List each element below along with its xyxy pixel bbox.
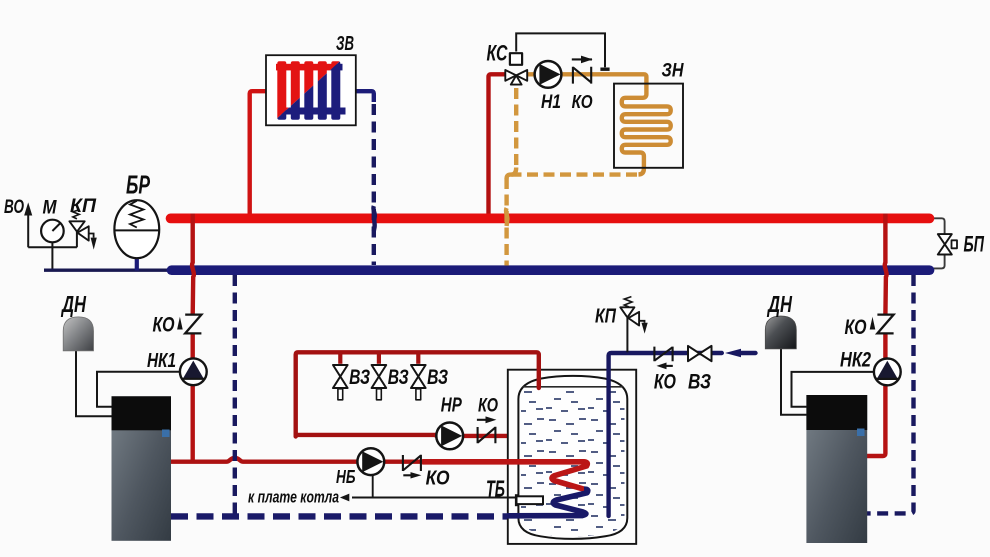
svg-text:КП: КП [70,196,96,217]
node: boiler-board arrow [340,494,349,502]
wire: boiler return dashed (thick navy) [171,513,507,519]
wire: БР stem [135,255,139,271]
wire: radiator return dashed riser [372,104,376,265]
check valve КО (after НБ) [403,455,421,476]
svg-text:ВЗ: ВЗ [388,365,409,389]
expansion tank БР [114,200,159,258]
wire: ВЗ valve stems [340,353,418,364]
svg-text:к плате котла: к плате котла [248,489,339,507]
check valve КО (right riser) [877,315,893,334]
radiator ЗВ [266,55,356,125]
safety valve КП (left) [69,221,88,240]
svg-text:НБ: НБ [336,466,356,487]
svg-text:БП: БП [964,231,985,256]
wire: left riser pump-to-tee [190,385,194,462]
pump НК1 [180,358,207,385]
node: pipe tap terminal bar [600,67,609,70]
wire: instrument header y=247 [28,246,77,248]
tank: outer casing [508,370,636,544]
svg-text:ДН: ДН [767,291,793,317]
svg-text:ТБ: ТБ [486,476,505,502]
node: cold water flow arrow [725,349,741,357]
svg-text:ВЗ: ВЗ [427,365,448,389]
svg-text:НК1: НК1 [147,349,176,372]
wire: ВО air-vent arrow [26,206,31,248]
wire: boiler-board sense line [352,497,516,499]
wire: НК2 pump cable [792,372,874,407]
svg-text:ДН: ДН [61,291,87,317]
pump НК2 [874,359,901,386]
wire: right boiler supply riser [885,214,887,316]
floor heating coil box ЗН [614,84,683,168]
wire: floor-loop return dashed to return main [504,178,508,266]
wire: right riser pump-to-boiler [866,385,885,456]
wire: КП stem (right) [626,318,628,352]
wire: tank coil red part [423,462,587,489]
wire: floor heating supply (orange) [528,74,671,174]
check valve КО (after НР) [477,420,496,443]
tank: inner vessel [518,376,627,539]
wire: КП stem [76,232,78,247]
svg-text:КО: КО [478,396,498,417]
right boiler [806,395,867,543]
pump Н1 [535,61,562,88]
svg-text:БР: БР [126,170,150,200]
wire: right return dashed riser [867,275,914,513]
wire: left ДН sensor cable [76,351,113,417]
svg-text:КО: КО [426,468,450,490]
wire: floor-loop jog over supply main [506,208,508,226]
wire: НБ control cable [352,475,373,498]
wire: instrument line to return main [44,269,172,272]
wire: НР line into tank [436,434,519,438]
svg-text:М: М [43,198,58,219]
bypass valve БП [938,234,957,254]
svg-text:ВЗ: ВЗ [349,365,370,389]
gauge М [41,220,64,243]
wire: DHW inlet stub into tank top [537,369,541,388]
wire: НК1 pump cable [97,372,180,407]
tank: water hatch [519,389,627,537]
wire: DHW manifold loop (dark red) [296,352,539,436]
svg-text:КС: КС [487,41,509,66]
svg-text:КП: КП [595,306,616,328]
svg-text:КО: КО [654,370,676,393]
wire: radiator return (solid part) [356,91,374,102]
wire: КС feed riser from supply main [489,74,506,213]
pump НР [436,423,463,450]
wire: radiator supply riser [250,91,266,213]
left boiler [112,396,172,541]
wire: left boiler supply riser [192,214,194,316]
safety valve КП (right) [620,307,639,325]
shutoff valve ВЗ (cold water) [688,346,712,361]
sensor ТБ pocket [516,496,543,504]
wire: left riser valve-to-pump [190,333,194,359]
wire: right riser valve-to-pump [883,333,887,359]
svg-text:ВО: ВО [4,197,24,218]
wire: floor-loop return dashed horizontal [511,172,639,176]
check valve КО (after Н1) [572,59,592,83]
svg-text:КО: КО [845,315,867,339]
svg-text:КО: КО [572,91,593,112]
sensor ДН (right) [765,316,796,349]
wire: left return dashed riser [233,275,237,514]
wire: cold water line [609,353,756,516]
wire: tank coil navy part [507,489,588,516]
mixing valve КС [505,53,527,84]
check valve КО (cold water) [654,347,672,366]
wire: КС control line to pipe sensor tap [516,33,605,67]
tank: water level arc [523,386,623,388]
wire: right ДН sensor cable [781,349,807,415]
sensor ДН (left) [63,317,93,351]
svg-text:ВЗ: ВЗ [688,370,711,393]
wire: radiator return jog over supply main [373,206,374,231]
check valve КО (left riser) [185,315,201,334]
wire: manometer stem [51,242,53,270]
svg-text:ЗВ: ЗВ [336,33,354,55]
svg-text:Н1: Н1 [541,92,561,113]
svg-text:НР: НР [441,395,462,417]
wire: return main (navy) [172,265,930,275]
wire: БП bypass connector [930,218,945,268]
wire: floor-loop return dashed from КС valve [514,88,518,169]
wire: floor-loop elbow [507,168,517,179]
pump НБ [357,448,384,475]
wire: supply main (red) [171,214,930,224]
svg-text:ЗН: ЗН [662,59,685,81]
svg-text:НК2: НК2 [840,348,871,372]
svg-text:КО: КО [153,314,175,337]
manifold tap valves ВЗ x3 [333,365,426,400]
wire: left boiler outlet to tank coil [171,458,583,462]
